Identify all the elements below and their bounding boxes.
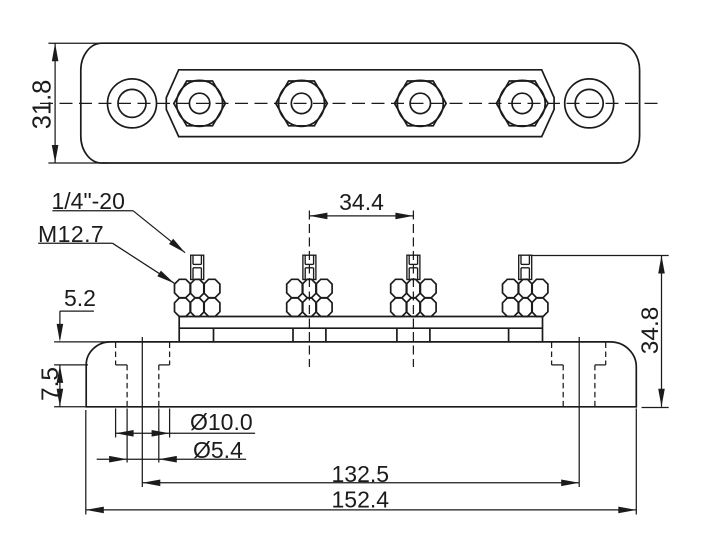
left hole centerline xyxy=(141,337,143,487)
stud S2: threaded stem xyxy=(303,255,316,279)
pedestal edges under studs xyxy=(214,328,509,342)
stud S2: upper hex nut (front view) xyxy=(287,279,332,297)
centerline stud S3 xyxy=(412,211,414,368)
stud S4: lower hex nut (front view) xyxy=(503,298,548,317)
svg-text:Ø5.4: Ø5.4 xyxy=(193,437,243,463)
stud S2: lower hex nut (front view) xyxy=(287,298,332,317)
leader M12.7 (nut callout) xyxy=(38,221,174,283)
dimension 34.8 (overall height) xyxy=(532,256,669,408)
right counterbored hole: hidden lines xyxy=(552,343,606,407)
ledge / bus bar strip (front view) xyxy=(179,317,542,342)
svg-text:34.8: 34.8 xyxy=(637,307,664,355)
stud S1: threaded stem xyxy=(191,255,204,279)
dimension 7.5 (counterbore depth) xyxy=(37,365,88,407)
centerline stud S2 xyxy=(308,211,310,368)
stud S3: lower hex nut (front view) xyxy=(391,298,436,317)
dimension Ø5.4 (through hole dia) xyxy=(97,409,246,464)
dimension 132.5 (hole spacing) xyxy=(142,461,579,487)
left mounting hole (top view) xyxy=(108,79,157,128)
svg-text:152.4: 152.4 xyxy=(332,486,390,512)
right hole centerline xyxy=(578,337,580,487)
raised pad (chamfered octagon, top view) xyxy=(166,70,554,137)
stud S1: lower hex nut (front view) xyxy=(175,298,220,317)
left counterbored hole: hidden lines xyxy=(116,343,170,407)
leader 1/4"-20 (stud thread callout) xyxy=(52,188,186,253)
front view: base outline xyxy=(86,342,636,407)
dimension Ø10.0 (counterbore dia) xyxy=(116,409,256,438)
stud S3: threaded stem xyxy=(407,255,420,279)
top view horizontal centerline xyxy=(40,102,664,104)
svg-text:132.5: 132.5 xyxy=(332,461,390,487)
svg-text:Ø10.0: Ø10.0 xyxy=(190,409,253,435)
stud S4: upper hex nut (front view) xyxy=(503,279,548,297)
dimension 34.4 (stud spacing) xyxy=(309,189,413,219)
right mounting hole (top view) xyxy=(565,79,614,128)
dimension 31.8 (top view height) xyxy=(29,43,59,163)
top view: bus bar body outline xyxy=(48,43,639,163)
dimension 5.2 (wall height) xyxy=(54,285,111,342)
hex nut N1 (top view) xyxy=(174,80,226,126)
svg-text:34.4: 34.4 xyxy=(339,189,384,215)
svg-text:7.5: 7.5 xyxy=(37,367,64,401)
stud S3: upper hex nut (front view) xyxy=(391,279,436,297)
svg-text:5.2: 5.2 xyxy=(64,285,96,311)
stud S1: upper hex nut (front view) xyxy=(175,279,220,297)
hex nut N3 (top view) xyxy=(395,80,447,126)
stud S4: threaded stem xyxy=(519,255,532,279)
svg-text:31.8: 31.8 xyxy=(29,80,57,130)
dimension 152.4 (overall width) xyxy=(86,409,637,515)
hex nut N2 (top view) xyxy=(276,80,328,126)
hex nut N4 (top view) xyxy=(496,80,548,126)
